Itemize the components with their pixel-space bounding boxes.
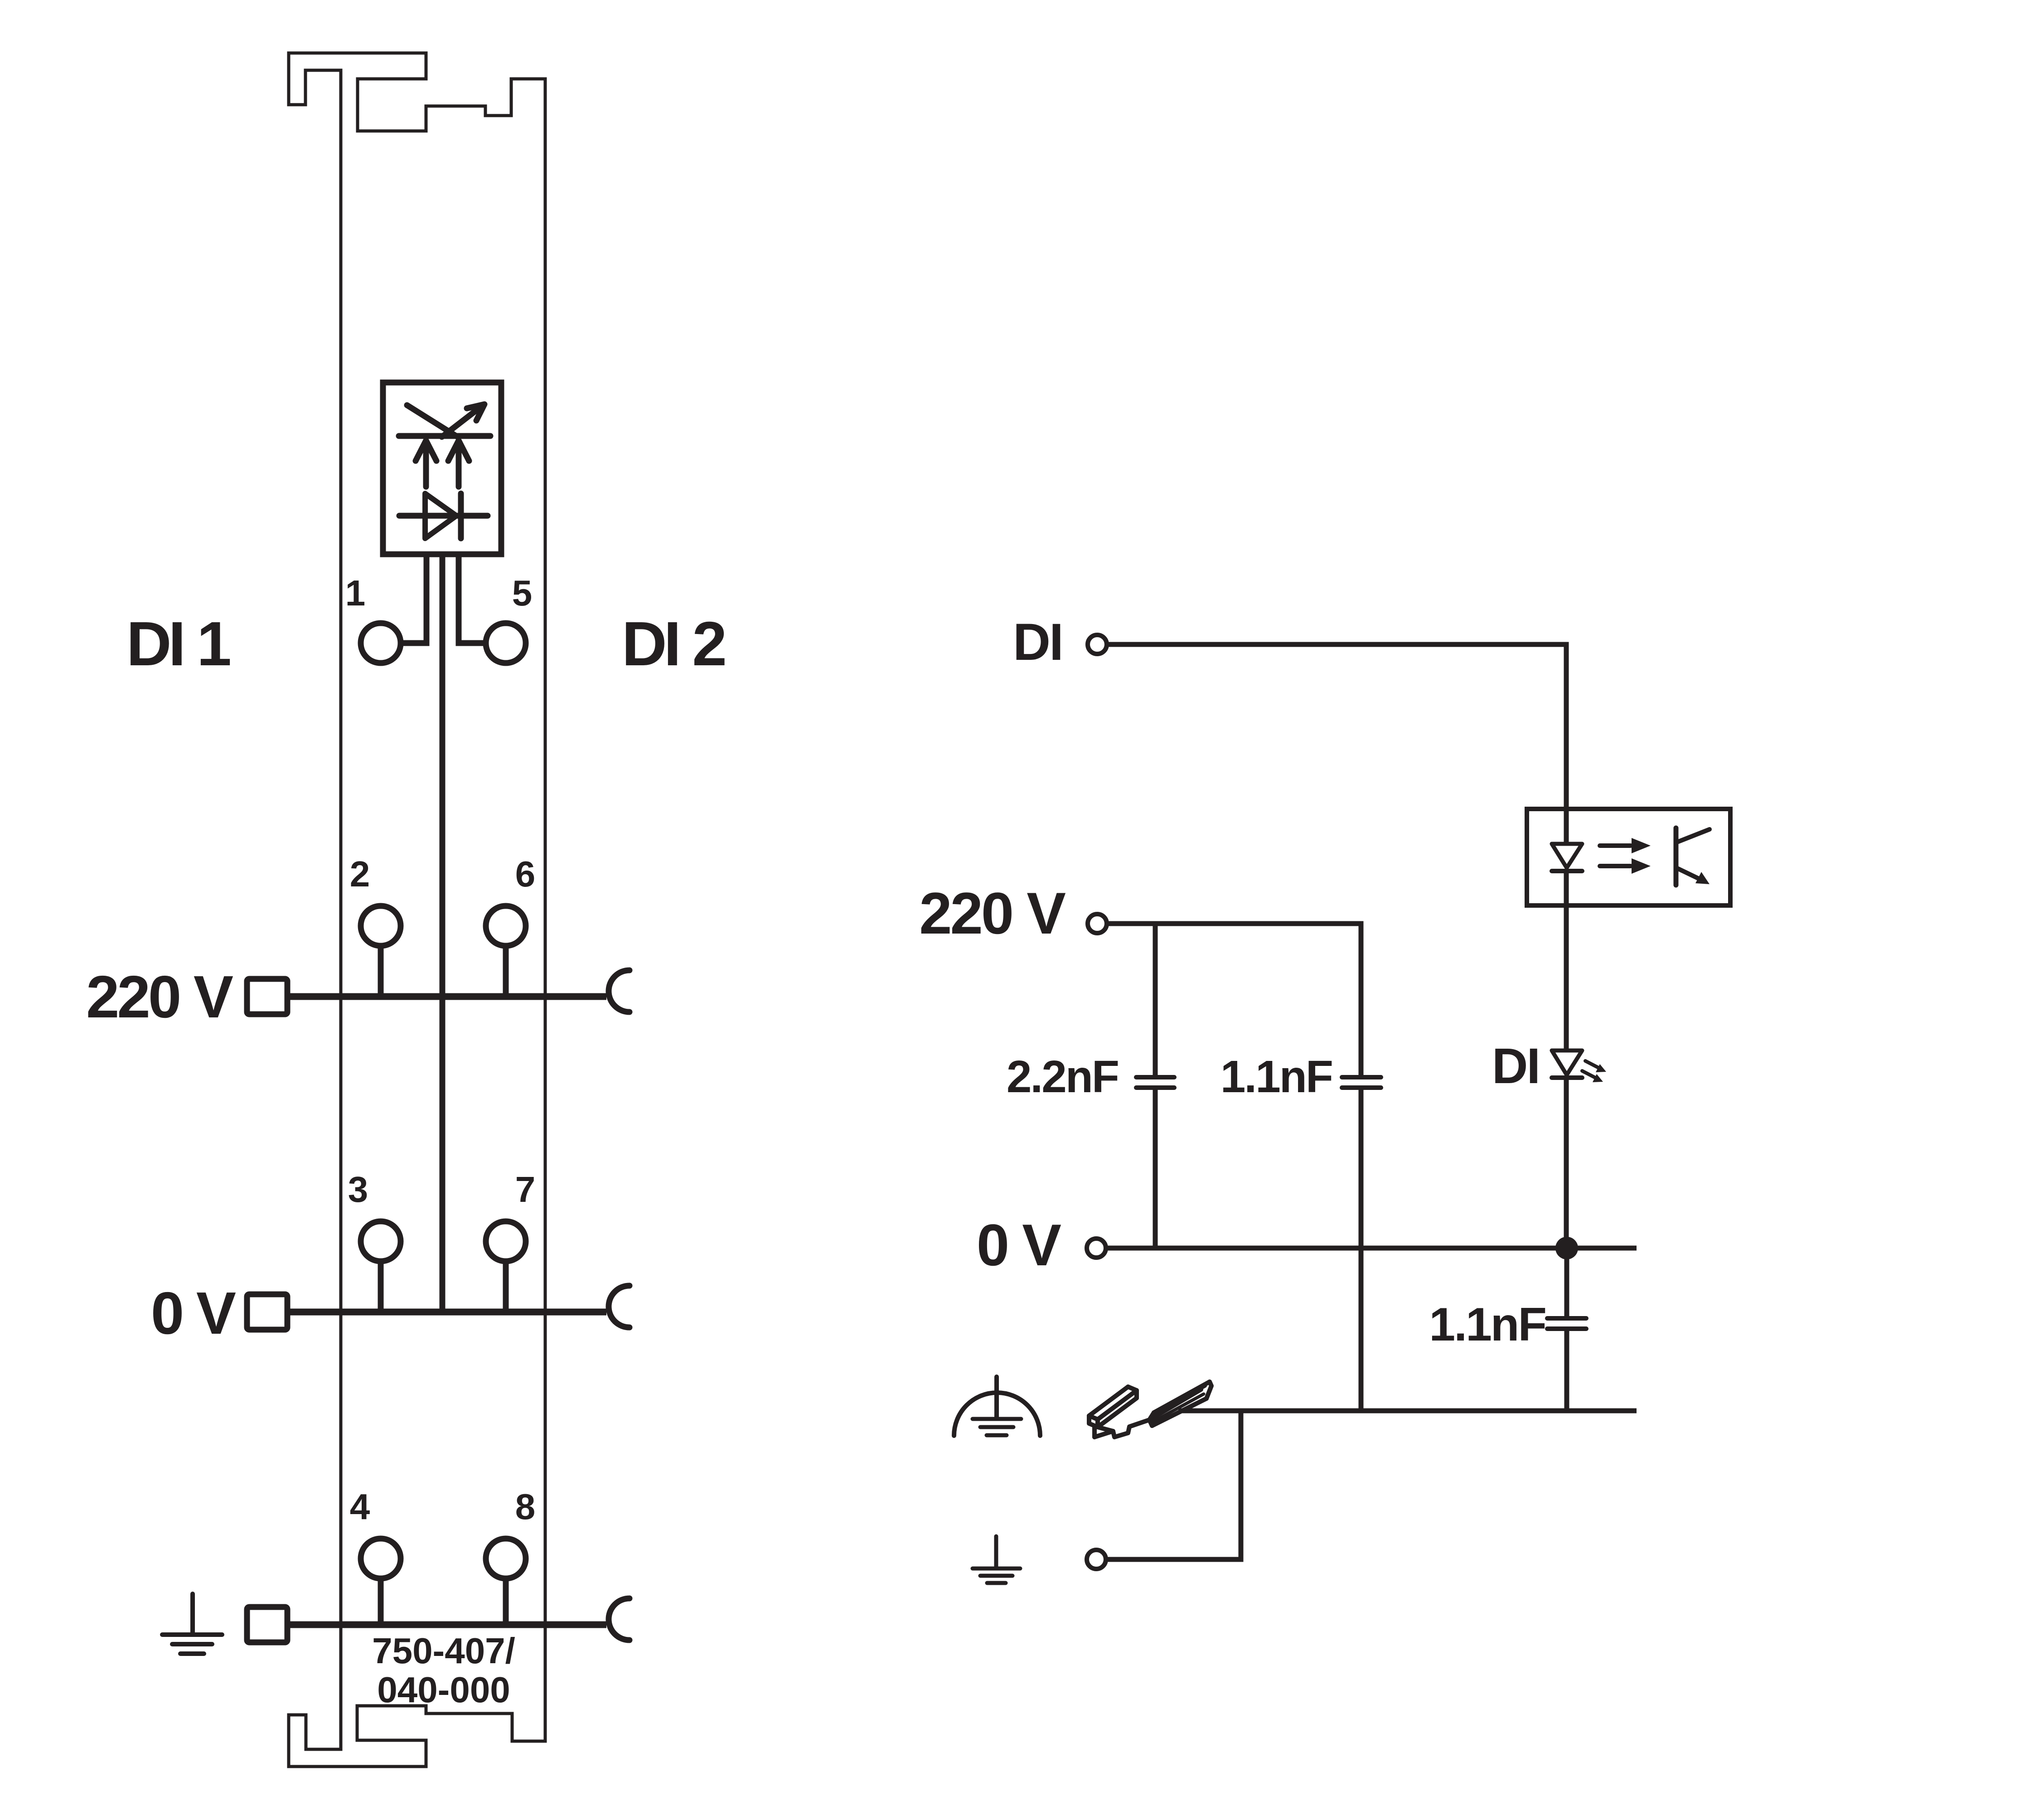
AC up arrow right shaft <box>456 442 462 487</box>
capacitor C2 1.1nF upper wire continuation <box>1359 1088 1364 1411</box>
AC input symbol diagonal <box>407 405 457 436</box>
diode D1 triangle <box>425 494 456 538</box>
220V wire right <box>1108 924 1361 1078</box>
capacitor C1 2.2nF branch wire <box>1153 924 1158 1078</box>
terminal 2 <box>361 906 401 946</box>
optocoupler LED triangle <box>1552 844 1582 868</box>
stem terminal 6 <box>503 946 509 993</box>
AC input symbol arrow head <box>467 404 484 421</box>
svg-text:DI: DI <box>1013 613 1062 671</box>
svg-text:1: 1 <box>345 573 366 613</box>
status LED DI triangle <box>1552 1050 1582 1075</box>
capacitor C3 1.1nF lower wire <box>1564 1329 1569 1411</box>
wire LED to 0V junction <box>1564 1078 1569 1248</box>
220V bus wire <box>286 993 606 1000</box>
earth terminal marker rectangle <box>247 1607 287 1642</box>
svg-text:1.1nF: 1.1nF <box>1429 1298 1545 1351</box>
terminal 6 <box>486 906 526 946</box>
phototransistor collector <box>1677 829 1710 842</box>
optocoupler LED wire upper <box>1564 809 1569 844</box>
stem terminal 7 <box>503 1261 509 1309</box>
svg-text:3: 3 <box>348 1169 368 1210</box>
220V terminal circle right <box>1088 914 1107 933</box>
diode D1 cathode bar <box>458 494 464 538</box>
diode D1 wire <box>399 513 488 519</box>
status LED light arrow 1 <box>1585 1061 1598 1068</box>
DI wire to optocoupler <box>1108 644 1566 809</box>
220V bus hook <box>609 970 630 1012</box>
earth bus wire <box>286 1622 606 1628</box>
status LED DI cathode bar <box>1552 1075 1582 1080</box>
optocoupler U1 box <box>1527 809 1730 905</box>
capacitor C3 1.1nF upper wire <box>1564 1248 1569 1319</box>
wire center return to 0V bus <box>440 554 446 1312</box>
terminal 3 <box>361 1221 401 1261</box>
stem terminal 8 <box>503 1578 509 1622</box>
svg-text:DI: DI <box>1492 1038 1539 1094</box>
svg-text:220 V: 220 V <box>86 963 233 1030</box>
svg-text:5: 5 <box>512 573 533 613</box>
earth ground symbol right <box>973 1536 1020 1583</box>
phototransistor emitter arrow head <box>1695 872 1710 884</box>
terminal 7 <box>486 1221 526 1261</box>
wire box to terminal 1 <box>402 554 426 643</box>
AC up arrow right head <box>448 440 469 461</box>
svg-text:0 V: 0 V <box>977 1212 1061 1278</box>
svg-text:2.2nF: 2.2nF <box>1007 1051 1118 1102</box>
capacitor C1 2.2nF lower wire <box>1153 1088 1158 1248</box>
chassis ground stem <box>994 1377 999 1418</box>
phototransistor base bar <box>1674 828 1679 885</box>
svg-text:4: 4 <box>350 1486 370 1527</box>
AC up arrow left shaft <box>423 442 429 487</box>
optocoupler LED cathode bar <box>1552 869 1582 873</box>
phototransistor emitter <box>1677 868 1702 880</box>
chassis ground symbol arc <box>954 1393 1040 1436</box>
stem terminal 2 <box>378 946 384 993</box>
svg-text:1.1nF: 1.1nF <box>1220 1051 1332 1102</box>
svg-text:750-407/: 750-407/ <box>372 1631 515 1671</box>
0V bus wire <box>286 1309 606 1316</box>
stem terminal 4 <box>378 1578 384 1622</box>
capacitor C3 1.1nF plates <box>1547 1318 1586 1329</box>
function block box <box>383 382 501 554</box>
module earth ground symbol <box>162 1594 222 1654</box>
220V terminal marker rectangle <box>247 979 287 1014</box>
svg-text:8: 8 <box>515 1486 536 1527</box>
AC input symbol bar <box>399 433 490 439</box>
chassis ground bars <box>973 1419 1021 1435</box>
earth bus hook <box>609 1598 630 1640</box>
svg-text:220 V: 220 V <box>919 880 1065 946</box>
optocoupler light arrow 1 shaft <box>1600 843 1631 848</box>
DI terminal circle <box>1088 635 1107 654</box>
terminal 5 <box>486 623 526 663</box>
optocoupler light arrow 2 shaft <box>1600 864 1631 868</box>
svg-text:7: 7 <box>515 1169 536 1210</box>
wire box to terminal 5 <box>459 554 485 643</box>
AC input symbol arrow shaft <box>442 408 479 437</box>
junction node dot <box>1555 1237 1578 1259</box>
status LED light arrow 1 head <box>1596 1064 1606 1072</box>
status LED light arrow 2 <box>1582 1071 1595 1078</box>
svg-text:040-000: 040-000 <box>377 1670 510 1710</box>
stem terminal 3 <box>378 1261 384 1309</box>
0V terminal circle right <box>1087 1239 1106 1258</box>
terminal 8 <box>486 1539 526 1578</box>
AC up arrow left head <box>416 440 436 461</box>
svg-text:DI 1: DI 1 <box>126 609 230 679</box>
svg-text:DI 2: DI 2 <box>622 609 725 679</box>
module 750-407 outline <box>289 53 545 1767</box>
earth drop wire <box>1107 1411 1241 1559</box>
terminal 4 <box>361 1539 401 1578</box>
0V bus hook <box>609 1286 630 1327</box>
0V terminal marker rectangle <box>247 1294 287 1330</box>
earth terminal circle <box>1087 1550 1106 1569</box>
optocoupler LED wire lower <box>1564 871 1569 1050</box>
DIN rail symbol <box>1089 1382 1211 1437</box>
status LED light arrow 2 head <box>1593 1074 1603 1082</box>
terminal 1 <box>361 623 401 663</box>
shield rail wire <box>1178 1409 1637 1413</box>
optocoupler light arrow 2 head <box>1632 858 1651 874</box>
svg-text:2: 2 <box>350 854 370 894</box>
svg-text:6: 6 <box>515 854 536 894</box>
capacitor C2 1.1nF plates <box>1342 1077 1381 1088</box>
capacitor C1 2.2nF plates <box>1136 1077 1174 1088</box>
svg-text:0 V: 0 V <box>151 1280 236 1346</box>
0V wire right <box>1107 1246 1637 1251</box>
optocoupler light arrow 1 head <box>1632 838 1651 853</box>
